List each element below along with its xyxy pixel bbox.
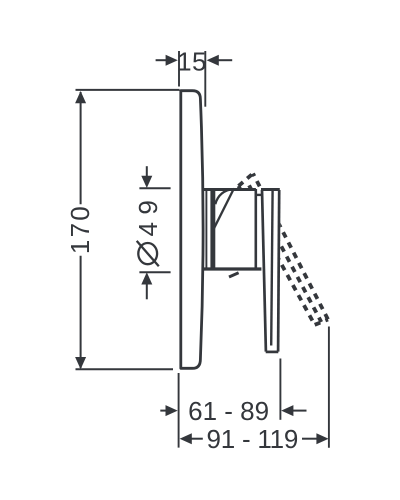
svg-text:91 - 119: 91 - 119 xyxy=(207,424,298,454)
dimension 15 (top): extension lines xyxy=(156,51,233,107)
escutcheon plate (side view) xyxy=(181,91,203,369)
lever handle, closed position (solid) xyxy=(261,190,280,352)
dimension 170 (left): extension and dimension lines xyxy=(76,90,180,369)
internal curved detail xyxy=(215,189,233,204)
internal diagonal detail xyxy=(214,189,234,228)
notch bottom between sleeve and handle hub xyxy=(255,194,263,196)
dimension diameter 49: extension lines and arrow stems xyxy=(139,166,170,299)
body back line at plate xyxy=(205,189,207,268)
dimension 91-119 (bottom): arrow stems xyxy=(191,438,318,440)
dimension diameter 49: arrowheads xyxy=(141,176,152,188)
dimension 170: arrowheads xyxy=(75,91,86,103)
body top edge xyxy=(204,188,256,191)
dimension 61-89 (bottom): arrow stems xyxy=(160,410,306,412)
svg-text:49: 49 xyxy=(133,193,163,237)
svg-text:1: 1 xyxy=(177,46,191,76)
svg-text:5: 5 xyxy=(192,46,206,76)
seal band (dark bar) xyxy=(210,190,215,267)
small tick below body xyxy=(229,273,239,277)
valve body outline xyxy=(202,189,263,277)
dimension 91-119: arrowheads xyxy=(180,433,192,444)
dimension 61-89: arrowheads xyxy=(166,405,178,416)
handle fill (masks dashed lever) xyxy=(260,188,280,353)
valve body fill (masks dashed lever) xyxy=(203,188,262,270)
dimension 15: arrowheads xyxy=(166,55,178,66)
sleeve right edge xyxy=(255,189,258,268)
svg-text:61 - 89: 61 - 89 xyxy=(188,396,269,426)
svg-text:170: 170 xyxy=(65,204,95,254)
body bottom edge xyxy=(202,267,261,270)
lever handle, rotated open position (dashed outline) xyxy=(239,174,329,325)
bottom extension lines xyxy=(179,327,329,448)
dimension diameter 49: label (rotated) xyxy=(133,193,163,267)
